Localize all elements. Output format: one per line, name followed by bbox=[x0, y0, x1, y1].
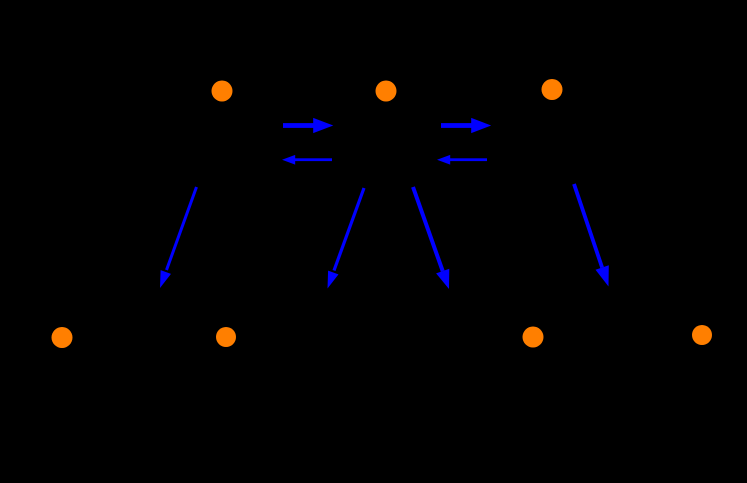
blue diagonal arrow 3 (down-right) bbox=[413, 187, 449, 289]
blue forward arrow pair2 (thick, right-pointing) bbox=[441, 118, 491, 133]
orange dot top-right bbox=[542, 79, 563, 100]
blue diagonal arrow 2 (down-left) bbox=[328, 188, 365, 289]
orange dot bottom-1 bbox=[52, 327, 73, 348]
orange dot top-left bbox=[212, 81, 233, 102]
blue diagonal arrow 4 (down-right) bbox=[574, 184, 609, 287]
blue forward arrow pair1 (thick, right-pointing) bbox=[283, 118, 333, 133]
orange dot bottom-3 bbox=[523, 327, 544, 348]
orange dot top-middle bbox=[376, 81, 397, 102]
blue diagonal arrow 1 (down-left) bbox=[160, 187, 197, 288]
blue reverse arrow pair1 (thin, left-pointing) bbox=[282, 155, 332, 165]
orange dot bottom-2 bbox=[216, 327, 236, 347]
orange dot bottom-4 bbox=[692, 325, 712, 345]
blue reverse arrow pair2 (thin, left-pointing) bbox=[437, 155, 487, 165]
